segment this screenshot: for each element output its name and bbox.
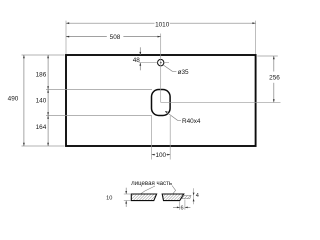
svg-text:6: 6 <box>180 206 183 212</box>
extension line bottom left <box>22 145 65 147</box>
extension lines cutout width <box>151 116 153 160</box>
circle crosshair right dash <box>165 62 169 64</box>
dimension 490 line <box>23 55 25 146</box>
dimension 100 line <box>152 154 156 156</box>
section right segment <box>162 194 184 201</box>
basin cutout R40x4 <box>152 90 171 116</box>
leader ø35 <box>163 65 176 71</box>
horizontal centerline <box>161 101 281 103</box>
extension line oval top <box>46 89 152 91</box>
section label leader left <box>141 186 155 194</box>
extension line oval bottom <box>46 115 152 117</box>
svg-text:ø35: ø35 <box>178 69 189 76</box>
dimension 6 arrows <box>173 206 180 208</box>
svg-text:490: 490 <box>8 95 19 102</box>
vertical centerline <box>160 34 162 103</box>
countertop outline <box>66 55 256 146</box>
extension line left edge (1010) <box>65 21 67 54</box>
svg-text:164: 164 <box>36 124 47 131</box>
dimension 508 line <box>66 36 107 38</box>
section chamfer tip <box>182 196 191 199</box>
svg-text:256: 256 <box>269 75 280 82</box>
svg-text:1010: 1010 <box>155 22 170 29</box>
extension line top right (256) <box>257 55 278 57</box>
dimension 1010 line <box>66 22 155 24</box>
svg-text:140: 140 <box>36 98 47 105</box>
svg-text:лицевая часть: лицевая часть <box>131 180 172 187</box>
dimension 4 arrows <box>193 193 195 196</box>
dimension 10 extension stubs <box>124 193 131 195</box>
dimension 48 arrows <box>139 47 141 55</box>
svg-text:508: 508 <box>110 34 121 41</box>
chain dimension line 186/140/164 <box>47 55 49 146</box>
extension line right edge (1010) <box>255 21 257 54</box>
section left segment <box>131 194 156 201</box>
faucet hole ø35 <box>158 59 164 65</box>
leader R40x4 <box>166 112 182 121</box>
dimension 48 stub to circle <box>139 62 158 64</box>
dimension 6 extension lines <box>179 202 181 210</box>
svg-text:100: 100 <box>155 152 166 159</box>
svg-text:R40x4: R40x4 <box>182 118 201 125</box>
dimension 10 arrows <box>125 188 127 194</box>
svg-text:186: 186 <box>36 71 47 78</box>
dimension 4 extension line <box>193 188 195 204</box>
svg-text:10: 10 <box>106 196 112 202</box>
svg-text:48: 48 <box>133 57 141 64</box>
extension line top left <box>22 54 65 56</box>
dimension 256 line <box>273 56 275 72</box>
section label leader right <box>172 186 176 194</box>
svg-text:4: 4 <box>196 193 199 199</box>
